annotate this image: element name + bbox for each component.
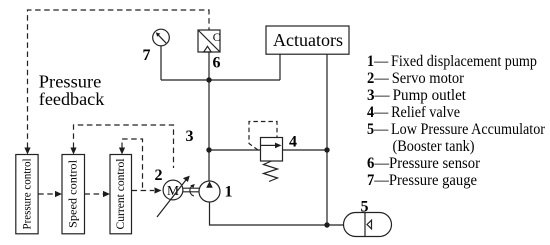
wire actuators left pipe <box>279 54 281 80</box>
svg-text:2— Servo motor: 2— Servo motor <box>367 70 465 87</box>
svg-text:6—Pressure sensor: 6—Pressure sensor <box>367 155 481 172</box>
svg-text:4: 4 <box>289 133 297 150</box>
node arrow into speed control <box>70 148 76 155</box>
svg-text:6: 6 <box>213 55 221 72</box>
pressure gauge 7 <box>153 29 170 46</box>
servo motor 2 <box>157 176 190 217</box>
node junction at 327,150 <box>324 147 329 152</box>
wire main vertical pump outlet <box>208 80 210 181</box>
svg-text:5: 5 <box>361 198 369 215</box>
svg-text:5— Low Pressure Accumulator: 5— Low Pressure Accumulator <box>367 121 546 138</box>
pressure sensor 6 <box>198 30 221 52</box>
svg-text:3: 3 <box>186 128 194 145</box>
wire horizontal gauge line y80 <box>161 79 280 81</box>
wire speed-feedback dashed <box>74 125 174 168</box>
wire pump suction down and right <box>210 202 344 225</box>
svg-text:1: 1 <box>225 184 233 201</box>
node junction 3 at 209,150 <box>206 147 211 152</box>
svg-text:4— Relief valve: 4— Relief valve <box>367 104 460 121</box>
wire relief valve line left <box>209 149 261 151</box>
wire gauge stem <box>160 46 162 80</box>
wire relief valve line right <box>283 149 328 151</box>
svg-text:7—Pressure gauge: 7—Pressure gauge <box>367 172 477 189</box>
node junction at 209,80 <box>206 77 211 82</box>
node junction at 327,225 <box>324 222 329 227</box>
wire pressure-feedback dashed loop <box>28 10 210 148</box>
box speed control <box>62 155 85 234</box>
wire actuators right pipe <box>326 54 328 225</box>
shaft coupling <box>183 184 199 196</box>
wire control-chain arrow 1-2 <box>38 191 62 197</box>
svg-text:3— Pump outlet: 3— Pump outlet <box>367 87 467 104</box>
relief valve 4 <box>249 122 283 182</box>
wire current-control to servo motor arrow <box>132 187 162 193</box>
svg-text:feedback: feedback <box>39 89 105 109</box>
svg-text:1— Fixed displacement pump: 1— Fixed displacement pump <box>367 53 537 70</box>
node arrow into pressure control <box>24 148 30 155</box>
wire control-chain arrow 2-3 <box>85 191 111 197</box>
pump 1 (fixed displacement) <box>199 181 220 202</box>
svg-text:(Booster tank): (Booster tank) <box>393 138 475 155</box>
svg-text:Pressure control: Pressure control <box>22 159 34 230</box>
node arrow into current control <box>119 148 125 155</box>
wire current-feedback dashed <box>122 139 143 190</box>
box current control <box>110 155 132 234</box>
svg-text:2: 2 <box>155 167 163 184</box>
svg-text:Speed control: Speed control <box>68 160 80 228</box>
accumulator 5 <box>344 213 392 237</box>
svg-text:7: 7 <box>143 47 151 64</box>
wire sensor stem down <box>208 52 210 80</box>
legend <box>367 53 546 189</box>
svg-text:Current control: Current control <box>115 159 127 230</box>
box pressure control <box>16 155 38 234</box>
svg-text:Actuators: Actuators <box>273 30 343 50</box>
svg-text:C: C <box>213 32 221 44</box>
box Actuators <box>266 26 349 54</box>
